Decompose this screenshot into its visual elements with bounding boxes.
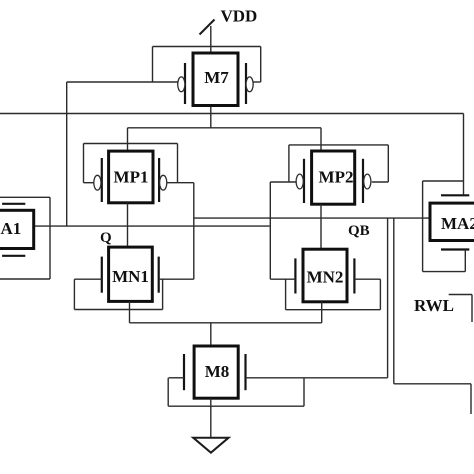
wire node Q drain vertical bbox=[127, 203, 129, 247]
gate bar MP1 right bbox=[158, 158, 160, 202]
wire RWL vertical bbox=[471, 295, 473, 323]
body box M8 bbox=[194, 346, 238, 398]
wire MN2 left gate stub to right gate net bbox=[270, 278, 295, 280]
gate bar MA1 top bbox=[2, 203, 25, 205]
wire MN1 left gate stub bbox=[74, 278, 101, 280]
svg-text:MP2: MP2 bbox=[319, 168, 354, 187]
gate bar MA2 top bbox=[441, 194, 469, 196]
gate bar MA2 bottom bbox=[441, 248, 469, 250]
ground bbox=[193, 438, 228, 453]
wire M7 drain split horizontal bbox=[128, 127, 322, 129]
wire VDD vertical bbox=[210, 26, 212, 53]
wire read branch right vertical bbox=[470, 384, 472, 414]
wire M7 left gate stub to node Q branch bbox=[67, 81, 178, 83]
wire WL horizontal line bbox=[0, 113, 464, 115]
wire M8 gate loop bottom bbox=[168, 405, 304, 407]
wire left gate net vertical bbox=[193, 183, 195, 280]
bubble M7 right bbox=[246, 77, 253, 92]
svg-text:QB: QB bbox=[348, 223, 370, 239]
wire MP2 left gate stub to right gate net bbox=[270, 181, 296, 183]
wire node QB drain vertical bbox=[320, 204, 322, 249]
svg-text:MN2: MN2 bbox=[307, 268, 344, 287]
wire node Q horizontal line bbox=[34, 225, 270, 227]
wire M7 gate vertical down to Q line bbox=[66, 82, 68, 226]
transistor M8 bbox=[184, 346, 246, 398]
svg-text:MP1: MP1 bbox=[114, 168, 149, 187]
wire MA1 gate loop top bbox=[0, 196, 50, 198]
transistor MN2 bbox=[295, 249, 354, 302]
svg-text:M8: M8 bbox=[205, 362, 230, 381]
wire M7 gate loop left vertical bbox=[152, 47, 154, 83]
gate bar M8 left bbox=[183, 354, 185, 390]
wire M7 gate loop top bbox=[153, 46, 261, 48]
transistor MP2 bbox=[296, 151, 371, 204]
wire M7 gate loop right vertical bbox=[260, 47, 262, 83]
gate bar MN1 right bbox=[158, 257, 160, 293]
bubble MP2 left bbox=[296, 174, 303, 189]
wire M8 right gate stub to QB branch bbox=[246, 377, 388, 379]
svg-text:RWL: RWL bbox=[414, 296, 454, 315]
wire node QB horizontal line bbox=[194, 217, 430, 219]
wire M8 drain vertical bbox=[210, 323, 212, 346]
gate bar MP2 left bbox=[303, 159, 305, 203]
gate bar MA1 bottom bbox=[2, 255, 25, 257]
wire MN1 source vertical bbox=[129, 301, 131, 322]
body box MA2 bbox=[430, 203, 474, 240]
wire MA2 gate loop bottom bbox=[423, 271, 466, 273]
wire VDD slash bbox=[200, 20, 215, 35]
wire MP2 gate loop left vertical bbox=[288, 145, 290, 182]
body box MP1 bbox=[109, 151, 153, 203]
wire read branch vertical from QB bbox=[393, 218, 395, 384]
wire M8 gate loop right vertical bbox=[303, 378, 305, 406]
wire MN1 gate loop bottom bbox=[74, 309, 162, 311]
svg-text:MA2: MA2 bbox=[441, 214, 474, 233]
wire MP1 gate loop left vertical bbox=[83, 144, 85, 183]
wire MN2 source vertical bbox=[321, 302, 323, 323]
wire M8 left gate stub bbox=[169, 377, 185, 379]
gate bar MN2 right bbox=[353, 258, 355, 293]
wire right gate net vertical bbox=[269, 182, 271, 279]
body box MP2 bbox=[312, 151, 355, 204]
transistor MA1 bbox=[0, 204, 34, 256]
svg-text:MN1: MN1 bbox=[112, 267, 149, 286]
wire MP2 gate loop right vertical bbox=[387, 145, 389, 182]
transistor M7 bbox=[178, 53, 254, 106]
wire MN2 gate loop bottom bbox=[286, 309, 381, 311]
wire MP1 gate loop right vertical bbox=[177, 144, 179, 183]
wire M7 drain vertical bbox=[210, 106, 212, 128]
wire MP1 gate loop top bbox=[84, 143, 178, 145]
wire M8 source vertical to ground bbox=[210, 398, 212, 438]
wire MA1 gate loop bottom bbox=[0, 278, 50, 280]
wire MP2 gate loop top bbox=[289, 144, 388, 146]
wire split down to MP1 source bbox=[127, 128, 129, 151]
bubble MP1 left bbox=[94, 175, 101, 190]
wire MN1 gate loop right vertical bbox=[162, 279, 164, 309]
body box MN1 bbox=[109, 247, 153, 301]
wire MN1 gate loop left vertical bbox=[73, 279, 75, 309]
wire RWL horizontal bbox=[449, 294, 472, 296]
wire M8 gate loop left vertical bbox=[167, 378, 169, 406]
gate bar MP1 left bbox=[101, 158, 103, 202]
body box MN2 bbox=[303, 249, 347, 302]
wire QB to M8 gate vertical bbox=[387, 218, 389, 378]
gate bar MP2 right bbox=[362, 159, 364, 203]
svg-text:A1: A1 bbox=[1, 219, 22, 238]
wire MN2 gate loop right vertical bbox=[379, 279, 381, 310]
gate bar M8 right bbox=[244, 354, 246, 390]
wire MA2 gate loop top bbox=[423, 180, 464, 182]
bubble M7 left bbox=[178, 77, 185, 92]
wire MP1 right gate stub to left gate net bbox=[167, 182, 194, 184]
gate bar MN1 left bbox=[101, 257, 103, 293]
wire MP1 left gate stub bbox=[84, 182, 94, 184]
transistor MP1 bbox=[94, 151, 167, 203]
wire MA2 bottom gate connector bbox=[464, 250, 466, 272]
wire M7 right gate stub bbox=[253, 81, 261, 83]
wire WL right vertical to MA2 top gate bbox=[463, 114, 465, 196]
gate bar M7 left bbox=[184, 63, 186, 104]
svg-text:M7: M7 bbox=[204, 68, 229, 87]
transistor MA2 bbox=[430, 195, 474, 249]
svg-text:VDD: VDD bbox=[221, 7, 258, 26]
wire split down to MP2 source bbox=[320, 128, 322, 151]
wire MN2 right gate stub bbox=[354, 278, 380, 280]
wire MA1 gate loop right vertical bbox=[49, 197, 51, 279]
body box MA1 bbox=[0, 210, 34, 248]
svg-text:Q: Q bbox=[100, 230, 112, 246]
wire MN1 right gate stub to left gate net bbox=[159, 278, 194, 280]
bubble MP1 right bbox=[160, 175, 167, 190]
wire MP2 right gate stub bbox=[372, 181, 389, 183]
wire source rail horizontal bbox=[130, 322, 322, 324]
bubble MP2 right bbox=[364, 174, 371, 189]
wire MN2 gate loop left vertical bbox=[285, 279, 287, 310]
gate bar MN2 left bbox=[294, 258, 296, 293]
body box M7 bbox=[193, 53, 238, 106]
gate bar M7 right bbox=[245, 63, 247, 104]
wire MA2 gate loop left vertical bbox=[422, 181, 424, 272]
transistor MN1 bbox=[102, 247, 159, 301]
wire read branch horizontal bbox=[394, 383, 471, 385]
